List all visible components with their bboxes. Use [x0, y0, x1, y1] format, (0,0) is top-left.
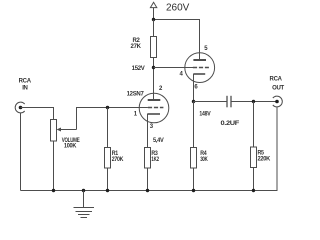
resistor R3 [145, 148, 151, 169]
RCA input jack [15, 102, 25, 113]
node R1-bus junction [106, 189, 109, 192]
svg-text:0.2UF: 0.2UF [221, 120, 240, 127]
ground symbol [74, 191, 95, 218]
svg-text:RCA: RCA [19, 79, 32, 85]
wire top rail to V2 plate [154, 20, 200, 61]
wire grid node to R1 top [107, 108, 109, 148]
wire pot bottom to ground bus [53, 141, 55, 191]
resistor R5 [251, 147, 257, 168]
svg-text:6: 6 [194, 84, 198, 90]
wire R4 bottom to bus [193, 168, 195, 191]
svg-text:2: 2 [159, 86, 163, 92]
resistor R2 [151, 37, 157, 58]
node ground-bus junction [82, 189, 85, 192]
svg-text:5,4V: 5,4V [153, 138, 164, 144]
ground bus wire [21, 190, 278, 192]
triode U1a (12SN7 first section) [139, 93, 169, 147]
wire input jack to volume pot top [21, 108, 54, 120]
wire R1 bottom to bus [107, 168, 109, 191]
wire 152V node to V2 grid [154, 67, 194, 69]
svg-text:30K: 30K [200, 157, 208, 163]
wire capacitor to output jack [231, 101, 277, 103]
node 148V junction [192, 100, 195, 103]
wire 148V node to capacitor [194, 101, 228, 103]
svg-text:27K: 27K [131, 44, 142, 50]
svg-text:5: 5 [204, 46, 208, 52]
svg-text:12SN7: 12SN7 [127, 92, 145, 98]
svg-text:1: 1 [134, 112, 138, 118]
wire R3 bottom to bus [147, 168, 149, 191]
wire 148V node to R4 top [193, 102, 195, 148]
svg-text:220K: 220K [258, 157, 271, 163]
triode U1b (12SN7 second section) [185, 53, 215, 102]
node 152V junction [152, 66, 155, 69]
node R4-bus junction [192, 189, 195, 192]
wire R5 bottom to bus [253, 168, 255, 191]
svg-text:270K: 270K [112, 157, 124, 163]
svg-text:100K: 100K [64, 143, 77, 149]
node top rail junction [152, 18, 155, 21]
wire R5 node to R5 top [253, 102, 255, 148]
resistor R4 [191, 148, 197, 169]
wire R2 bottom to V1 plate [153, 58, 155, 101]
resistor R1 [105, 148, 111, 169]
node grid junction [106, 106, 109, 109]
potentiometer VOLUME 100K [51, 120, 77, 142]
wire input jack shell to bus [20, 113, 22, 191]
wire 260V node to R2 top [153, 20, 155, 37]
wire pot wiper to V1 grid [77, 108, 148, 130]
wire output jack shell to bus [276, 107, 278, 191]
svg-text:IN: IN [22, 86, 27, 92]
node R3-bus junction [146, 189, 149, 192]
node pot-bus junction [52, 189, 55, 192]
capacitor C1 0.2UF [227, 96, 231, 108]
svg-text:3: 3 [150, 124, 154, 130]
RCA output jack [273, 96, 283, 107]
svg-text:4: 4 [180, 72, 184, 78]
svg-text:148V: 148V [199, 112, 210, 118]
svg-text:152V: 152V [132, 66, 145, 72]
svg-text:RCA: RCA [270, 77, 283, 83]
power arrow 260V supply [150, 2, 156, 20]
svg-text:260V: 260V [166, 3, 190, 14]
node R5-bus junction [252, 189, 255, 192]
svg-text:1K2: 1K2 [151, 157, 159, 163]
svg-text:OUT: OUT [272, 86, 284, 92]
node R5 top junction [252, 100, 255, 103]
